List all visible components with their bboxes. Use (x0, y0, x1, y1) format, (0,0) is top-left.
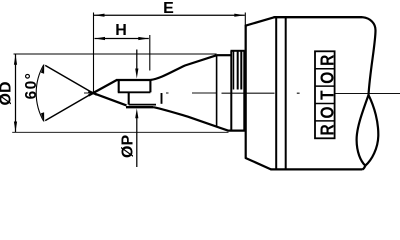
ring groove line 3 (240, 51, 242, 90)
holder top-right corner and break curve upper (363, 17, 376, 95)
pilot top edge (116, 79, 150, 81)
extension line H right (149, 35, 151, 71)
ROTOR logo dividers (315, 68, 335, 70)
flute end edge vertical (216, 55, 218, 126)
holder top chamfer (245, 17, 275, 26)
ring left face (230, 51, 232, 131)
ring groove line 2 (237, 51, 239, 90)
holder bottom edge (271, 168, 363, 170)
svg-text:R: R (316, 124, 338, 136)
flute inner bottom line (129, 104, 156, 106)
ROTOR letters (316, 54, 338, 135)
extension line E left (tool tip) (93, 13, 95, 93)
dimension line OP upper (136, 50, 138, 72)
flute ledge line (118, 91, 151, 93)
svg-text:R: R (316, 54, 338, 66)
extension line OD bottom (12, 131, 228, 133)
svg-text:ØD: ØD (0, 82, 15, 106)
svg-text:T: T (316, 90, 338, 100)
ROTOR logo box (315, 51, 335, 138)
flute step vertical mid (128, 92, 130, 104)
svg-text:O: O (316, 106, 338, 118)
body land top (217, 54, 232, 56)
lower taper to body (153, 107, 228, 130)
svg-text:ØP: ØP (119, 135, 136, 158)
ring right face (243, 51, 245, 131)
ring top edge (231, 50, 245, 52)
dimension line OD (15, 54, 17, 132)
extension line E right (244, 13, 246, 51)
dimension line OP lower (136, 116, 138, 167)
angle arc 60 (36, 65, 44, 122)
holder groove line 1 (275, 17, 277, 169)
tool upper flank (60deg cutting edge) (89, 80, 117, 96)
centerline (84, 92, 400, 95)
body bottom edge (228, 130, 246, 132)
bottom edge into leaf tip (363, 166, 366, 170)
tool lower flank (88, 91, 126, 105)
holder left face (245, 25, 247, 158)
extension line OD top (14, 53, 217, 55)
ring groove line 1 (233, 51, 235, 90)
break leaf right branch (365, 95, 378, 166)
dimension line H (95, 38, 149, 40)
holder top edge (274, 16, 363, 18)
step vertical at end of pilot (H) (149, 80, 151, 93)
svg-text:60°: 60° (23, 72, 40, 100)
holder bottom chamfer (245, 158, 272, 170)
svg-text:E: E (163, 0, 174, 17)
svg-text:H: H (115, 22, 127, 39)
dimension line E (94, 14, 245, 16)
break leaf left branch (357, 95, 369, 166)
svg-text:O: O (316, 72, 338, 84)
angle construction line lower (45, 91, 96, 121)
flute step vertical at pilot front (118, 80, 120, 93)
angle construction line upper (45, 65, 96, 95)
upper taper to body (150, 55, 216, 80)
pilot bottom edge (126, 106, 153, 108)
flute far edge vertical (161, 93, 163, 104)
holder groove line 2 (285, 17, 287, 169)
